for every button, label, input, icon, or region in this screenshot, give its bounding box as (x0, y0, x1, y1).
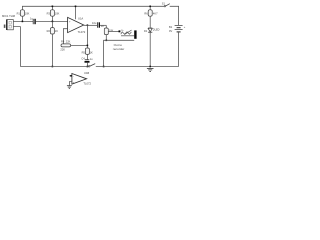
wire battery minus to rail (178, 33, 180, 67)
switch S1 (162, 1, 170, 7)
svg-text:MIC1 THM: MIC1 THM (2, 14, 16, 18)
capacitor C1 (30, 16, 36, 24)
svg-text:9V: 9V (169, 29, 172, 33)
resistor R2 (47, 21, 59, 66)
svg-text:C4: C4 (81, 56, 85, 60)
wire U1A inverting input (63, 29, 67, 46)
wire jack sleeve return (104, 40, 135, 66)
node R7 bottom junction (106, 40, 108, 42)
node C4 rail junction (87, 66, 89, 68)
svg-text:1K: 1K (55, 29, 58, 33)
node R6 rail junction (149, 6, 151, 8)
wire U1B inverting stub (69, 75, 72, 77)
wire bottom rail right (96, 66, 179, 68)
svg-text:10K: 10K (25, 11, 30, 15)
wire op-amp U1A V+ pin (75, 6, 77, 19)
node R3/R2 signal junction (52, 21, 54, 23)
svg-text:4K7: 4K7 (153, 11, 158, 15)
node mic/R1 junction (22, 21, 24, 23)
svg-text:D1: D1 (144, 29, 148, 33)
svg-text:R5: R5 (82, 50, 86, 54)
wire R4 to output node (71, 44, 88, 46)
wire to volume pot wiper (108, 30, 118, 32)
ground symbol (147, 68, 154, 71)
svg-text:U1B: U1B (84, 71, 89, 75)
resistor R6 (144, 6, 158, 28)
svg-text:1K: 1K (90, 50, 93, 54)
node R3 top rail junction (52, 6, 54, 8)
svg-text:B1: B1 (169, 25, 173, 29)
svg-text:R6: R6 (144, 11, 148, 15)
resistor R3 (47, 6, 60, 21)
svg-text:R4: R4 (61, 40, 65, 44)
wire LED cathode to rail (149, 33, 151, 67)
switch S2 (88, 64, 95, 67)
capacitor C4 (81, 56, 93, 66)
wire C1 to op-amp input (36, 20, 68, 22)
svg-text:recorder: recorder (113, 47, 125, 51)
wire C5 to R7 (100, 24, 106, 26)
svg-text:S1: S1 (162, 1, 166, 5)
connector J1 jack plug (134, 30, 136, 38)
ground symbol U1B (67, 86, 72, 89)
svg-text:LED: LED (155, 28, 160, 31)
node feedback junction (87, 45, 89, 47)
resistor R4 feedback (60, 40, 70, 52)
potentiometer VR1 (121, 30, 134, 36)
svg-text:TL072: TL072 (83, 81, 91, 85)
microphone MIC1 (4, 19, 13, 30)
node sleeve rail junction (103, 66, 105, 68)
svg-text:10K: 10K (109, 29, 114, 33)
wire mic upper pin to C1 (13, 20, 33, 22)
svg-text:-: - (73, 76, 74, 79)
wire U1B non-inverting to ground (69, 82, 72, 86)
node R2 bottom rail junction (52, 66, 54, 68)
node LED rail junction (149, 66, 151, 68)
svg-text:R2: R2 (47, 29, 51, 33)
svg-text:R1: R1 (17, 11, 21, 15)
node output junction (87, 24, 89, 26)
svg-text:22K: 22K (66, 40, 71, 44)
wire bottom rail left (20, 66, 88, 68)
svg-text:-: - (69, 28, 70, 31)
battery BT1 (169, 25, 186, 33)
wire rail to battery (170, 6, 179, 25)
wire U1A output (84, 24, 97, 26)
resistor R5 (82, 48, 93, 59)
svg-text:10u: 10u (92, 21, 97, 25)
note caption out to recorder (113, 43, 125, 51)
node V+ rail junction (75, 6, 77, 8)
svg-text:U1A: U1A (78, 16, 83, 20)
wire output feedback vertical (86, 25, 88, 48)
op-amp U1B (72, 71, 92, 85)
wire top rail V+ (22, 5, 164, 7)
node pot wiper terminal (119, 30, 121, 32)
svg-text:R3: R3 (47, 11, 51, 15)
svg-text:10K: 10K (55, 11, 60, 15)
resistor R1 (17, 6, 30, 21)
svg-text:R7: R7 (101, 24, 105, 28)
wire mic lower pin (13, 27, 20, 67)
op-amp U1A (68, 16, 86, 34)
capacitor C5 (92, 21, 100, 28)
svg-text:22K: 22K (60, 47, 65, 51)
resistor R7 (101, 24, 114, 40)
svg-text:TL072: TL072 (78, 30, 86, 34)
node U1B inverting (70, 75, 72, 77)
LED D1 (144, 28, 160, 33)
